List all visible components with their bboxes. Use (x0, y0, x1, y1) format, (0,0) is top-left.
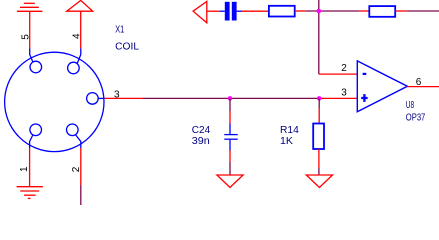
svg-text:5: 5 (20, 34, 31, 40)
wire mid net (purple) (143, 97, 319, 99)
power port arrow left (193, 1, 207, 22)
junction at R14 (317, 96, 322, 101)
wire resistor1 right stub (red) (295, 10, 306, 12)
capacitor top left lead (blue) (219, 10, 224, 12)
wire C24 bottom (red) (229, 151, 231, 163)
wire pin 1 down (29, 148, 31, 187)
wire C24 to ground (purple) (229, 162, 231, 175)
resistor R14 (313, 124, 324, 150)
op-amp plus sign (361, 94, 367, 102)
pin 4 of X1 (68, 48, 81, 73)
svg-text:X1: X1 (115, 25, 124, 36)
wire to junction (purple) (306, 10, 360, 12)
svg-text:3: 3 (341, 88, 347, 99)
svg-text:1: 1 (19, 166, 30, 172)
wire pin 2 down (red part) (80, 148, 82, 185)
svg-text:COIL: COIL (115, 42, 139, 53)
capacitor top (thick plates) (225, 2, 230, 21)
svg-text:39n: 39n (192, 136, 210, 147)
wire vertical feedback (purple) (318, 0, 320, 74)
op-amp U8 triangle (357, 61, 407, 112)
svg-text:C24: C24 (192, 125, 211, 136)
svg-text:U8: U8 (406, 100, 415, 111)
wire to right edge (purple) (407, 10, 439, 12)
svg-text:OP37: OP37 (406, 113, 426, 124)
pin 1 of X1 (30, 124, 42, 148)
op-amp minus sign (363, 73, 367, 75)
wire R14 to ground (purple) (318, 168, 320, 175)
wire resistor2 right stub (red) (395, 10, 406, 12)
capacitor C24 (224, 124, 237, 151)
resistor top 1 (269, 6, 295, 17)
ground triangle under R14 (306, 175, 332, 188)
pin 5 of X1 (30, 48, 42, 73)
wire pin 5 to ground (29, 11, 31, 48)
wire pin3 stub (red) (105, 97, 143, 99)
svg-text:R14: R14 (280, 125, 299, 136)
junction at C24 (228, 96, 233, 101)
capacitor top right lead (blue) (237, 10, 242, 12)
wire R14 bottom (red) (318, 149, 320, 168)
ground (earth) top-left (17, 3, 43, 11)
wire op-amp pin2 stub (red) (319, 73, 358, 75)
power port arrow up (67, 0, 93, 11)
resistor top 2 (369, 6, 395, 17)
wire resistor2 left stub (red) (360, 10, 370, 12)
wire op-amp pin3 stub (red) (319, 97, 357, 99)
wire net off-page bottom (purple part) (80, 185, 82, 205)
wire pin 4 to power arrow (80, 11, 82, 48)
wire R14 top (purple then red) (318, 98, 320, 108)
wire arrow to capacitor (red) (207, 10, 220, 12)
wire C24 top (purple then red) (229, 98, 231, 111)
svg-text:2: 2 (341, 63, 347, 74)
junction top (317, 9, 322, 14)
wire output pin 6 (red) (407, 86, 439, 88)
ground (earth) bottom-left (17, 187, 43, 199)
pin 2 of X1 (67, 124, 81, 148)
svg-text:4: 4 (72, 33, 83, 39)
pin 3 of X1 (87, 93, 105, 105)
svg-text:1K: 1K (280, 136, 293, 147)
ground triangle under C24 (217, 175, 243, 188)
wire capacitor to resistor (red) (242, 10, 269, 12)
connector X1 body circle (5, 52, 104, 151)
